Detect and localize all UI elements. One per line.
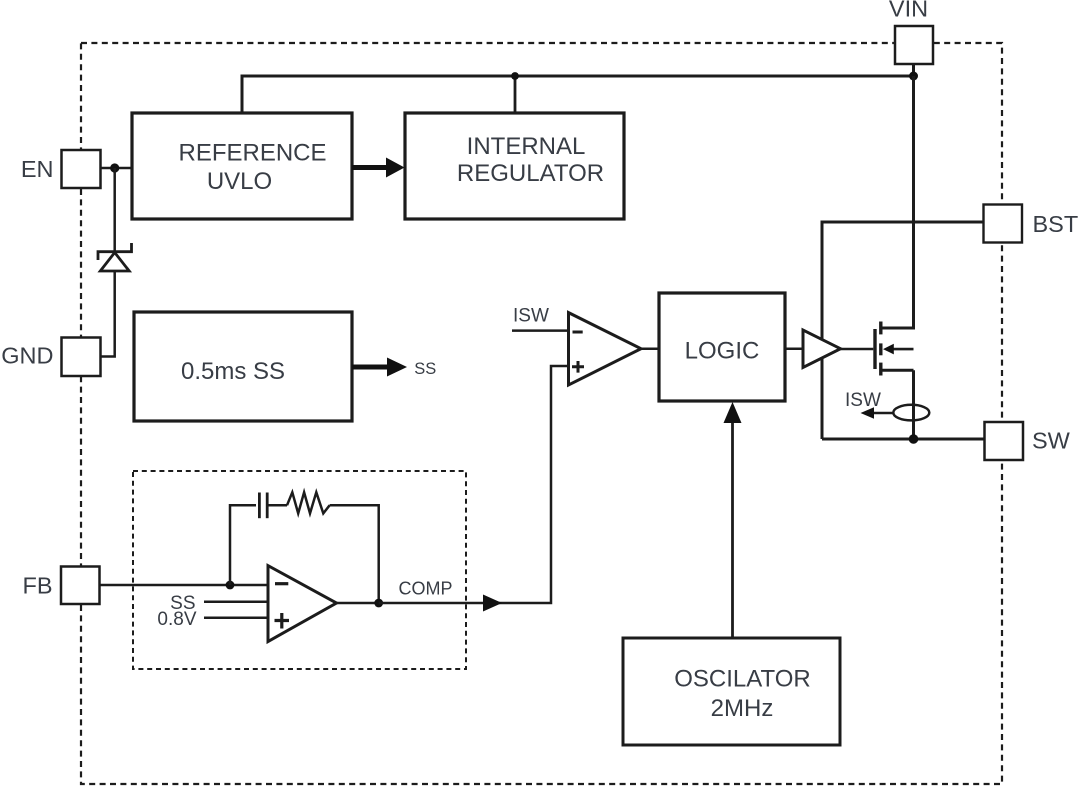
svg-text:SW: SW — [1032, 428, 1071, 454]
wire: resistor to COMP node — [330, 505, 379, 603]
block: INTERNAL REGULATOR — [405, 113, 624, 219]
wire: driver output to MOSFET gate — [841, 348, 874, 351]
wire: error amp output to COMP node — [337, 602, 379, 605]
svg-text:BST: BST — [1033, 211, 1079, 237]
block: 0.5ms SS — [134, 312, 352, 421]
node: junction dot at VIN column — [909, 72, 918, 81]
wire: SS input to error amp — [204, 600, 269, 603]
node: COMP junction dot — [374, 599, 383, 608]
arrow: oscillator clock to LOGIC — [731, 415, 734, 638]
node: FB junction dot — [226, 581, 235, 590]
svg-text:0.8V: 0.8V — [157, 609, 196, 630]
wire: FB pin to error amp inverting input — [100, 584, 269, 587]
svg-text:ISW: ISW — [845, 390, 881, 411]
wire: BST rail to driver supply — [822, 222, 984, 439]
svg-text:COMP: COMP — [399, 578, 453, 598]
svg-text:OSCILATOR: OSCILATOR — [674, 665, 810, 692]
capacitor C1 (compensation) — [259, 493, 267, 519]
arrow: ISW sense direction — [872, 412, 894, 415]
wire: top VIN rail — [242, 76, 914, 114]
node: SW junction dot — [909, 434, 919, 444]
svg-text:ISW: ISW — [513, 306, 549, 327]
svg-text:FB: FB — [22, 573, 52, 599]
node: EN junction dot — [110, 163, 119, 172]
dashed box: error amplifier section — [133, 471, 466, 669]
wire: VIN pin down to rail — [912, 64, 915, 76]
block: LOGIC — [659, 293, 785, 401]
pin SW — [985, 422, 1024, 460]
svg-text:SS: SS — [414, 360, 436, 378]
svg-text:REGULATOR: REGULATOR — [457, 160, 604, 187]
zener diode D1 (EN clamp) — [98, 243, 132, 271]
pin GND — [62, 338, 101, 377]
svg-text:LOGIC: LOGIC — [685, 338, 760, 365]
svg-text:0.5ms SS: 0.5ms SS — [181, 358, 285, 385]
wire: EN pin to REFERENCE UVLO — [101, 167, 132, 170]
wire: 0.8V input to error amp — [204, 616, 269, 619]
svg-text:GND: GND — [1, 343, 53, 369]
buffer U3 (gate driver) — [803, 330, 841, 368]
resistor R1 (compensation) — [287, 492, 330, 513]
arrow: soft-start SS output — [352, 365, 389, 370]
svg-text:2MHz: 2MHz — [711, 695, 774, 722]
transistor Q1 (power MOSFET) — [875, 322, 914, 376]
comparator U2 (PWM comparator) — [569, 313, 642, 385]
wire: zener anode down to GND pin — [101, 271, 115, 357]
wire: feedback up to compensation network — [230, 505, 256, 585]
wire: ISW input to PWM comparator — [512, 329, 569, 332]
svg-text:REFERENCE: REFERENCE — [178, 140, 326, 167]
wire: MOSFET source down through current sensor to SW rail — [912, 370, 915, 439]
wire: comparator output to LOGIC — [641, 347, 659, 350]
pin FB — [61, 567, 100, 605]
wire: LOGIC to gate driver — [785, 347, 803, 350]
op-amp U1 (error amplifier) — [268, 566, 337, 642]
wire: SW rail — [822, 438, 985, 441]
block: REFERENCE UVLO — [132, 113, 352, 219]
block: OSCILATOR 2MHz — [623, 638, 840, 745]
wire: COMP to PWM comparator non-inverting input — [379, 366, 569, 603]
wire: VIN column down to MOSFET drain — [882, 76, 914, 328]
node: junction dot on rail above INTERNAL REGULATOR — [511, 72, 519, 80]
current sensor (ISW) — [893, 405, 929, 421]
svg-text:EN: EN — [21, 156, 54, 182]
svg-text:INTERNAL: INTERNAL — [467, 133, 586, 160]
pin BST — [984, 205, 1023, 243]
wire: capacitor to resistor — [269, 504, 288, 507]
pin VIN — [895, 26, 933, 64]
pin EN — [62, 150, 101, 188]
svg-text:UVLO: UVLO — [207, 168, 272, 195]
arrow: REFERENCE UVLO to INTERNAL REGULATOR — [352, 165, 388, 170]
arrow: COMP signal direction — [483, 595, 502, 612]
wire: EN junction down to zener cathode — [113, 168, 116, 251]
svg-text:VIN: VIN — [889, 0, 928, 22]
wire: rail drop to INTERNAL REGULATOR — [514, 76, 517, 114]
